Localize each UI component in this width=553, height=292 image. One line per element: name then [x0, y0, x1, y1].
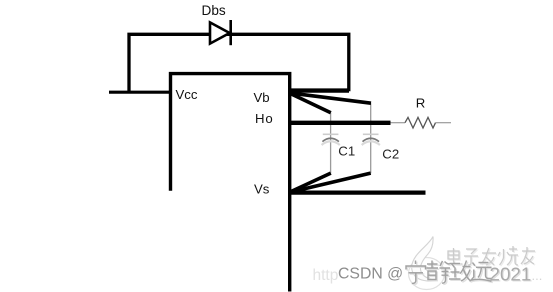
capacitor C2 — [362, 134, 380, 145]
svg-text:2021: 2021 — [490, 263, 532, 284]
wire: Vb node to C2 top (diagonal) — [289, 93, 371, 103]
watermark handle name echo (emboss) — [407, 262, 493, 285]
svg-text:C2: C2 — [382, 146, 399, 161]
wire: bootstrap loop from Vcc up over Dbs down to Vb — [129, 34, 349, 92]
wire: Ho to resistor R left lead — [391, 122, 406, 124]
IC U1 gate driver body — [171, 74, 290, 292]
watermark elecfans flame logo — [412, 237, 436, 282]
svg-text:CSDN @: CSDN @ — [338, 265, 403, 282]
wire: C2 bottom to Vs node (diagonal) — [289, 173, 371, 192]
wire: Vb pin to bootstrap loop — [288, 88, 349, 92]
diode Dbs — [210, 20, 231, 45]
capacitor C2 lead wire — [370, 103, 372, 173]
svg-text:Vcc: Vcc — [176, 87, 198, 102]
svg-text:Vs: Vs — [254, 182, 270, 197]
wire: Vs output — [288, 191, 426, 195]
watermark brand name strokes — [448, 246, 535, 265]
svg-text:C1: C1 — [338, 143, 355, 158]
resistor R — [405, 117, 436, 128]
svg-text:Ho: Ho — [255, 111, 273, 126]
wire: Vb node to C1 top (diagonal) — [289, 93, 331, 113]
capacitor C1 lead wire — [330, 113, 332, 174]
watermark handle name strokes — [406, 261, 492, 284]
wire: Vcc supply lead — [109, 91, 172, 94]
svg-text:Vb: Vb — [254, 90, 270, 105]
svg-text:R: R — [416, 96, 426, 111]
capacitor C1 — [322, 134, 340, 145]
watermark brand name echo (emboss) — [449, 247, 536, 266]
svg-text:Dbs: Dbs — [202, 3, 226, 18]
resistor R right lead — [436, 122, 452, 124]
svg-text:http: http — [313, 267, 339, 284]
svg-text:...: ... — [532, 268, 543, 283]
wire: Ho output — [288, 121, 391, 125]
watermark elecfans logo ring — [409, 258, 445, 290]
wire: C1 bottom to Vs node (diagonal) — [289, 173, 331, 192]
